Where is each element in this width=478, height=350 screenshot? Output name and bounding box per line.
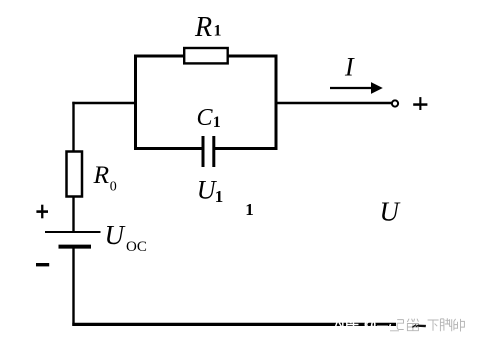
svg-text:C: C [197, 105, 214, 131]
svg-text:1: 1 [215, 187, 224, 206]
svg-text:1: 1 [213, 114, 221, 131]
svg-text:OC: OC [126, 239, 147, 255]
svg-text:U: U [380, 197, 401, 227]
svg-text:I: I [344, 53, 355, 82]
svg-text:U: U [105, 220, 126, 250]
svg-text:R: R [93, 160, 110, 189]
svg-text:R: R [194, 12, 212, 43]
svg-text:0: 0 [110, 180, 117, 195]
svg-text:1: 1 [214, 23, 222, 40]
svg-text:1: 1 [245, 200, 254, 219]
